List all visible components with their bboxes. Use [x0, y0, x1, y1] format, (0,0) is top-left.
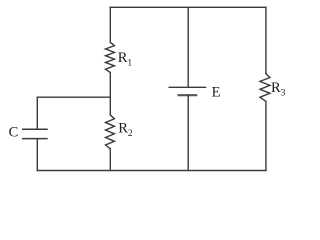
- svg-text:R2: R2: [118, 120, 133, 139]
- svg-text:R3: R3: [271, 80, 286, 99]
- svg-text:R1: R1: [118, 50, 133, 68]
- svg-text:C: C: [9, 125, 19, 141]
- svg-text:E: E: [212, 84, 221, 100]
